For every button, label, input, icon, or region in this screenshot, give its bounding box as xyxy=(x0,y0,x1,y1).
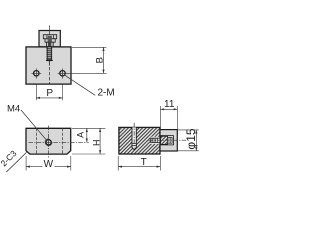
svg-text:φ15: φ15 xyxy=(184,128,198,149)
set screw threaded end xyxy=(151,138,160,142)
M4 tapped hole xyxy=(46,140,51,145)
dimension H line xyxy=(99,128,101,154)
dimension phi15 extension lines xyxy=(178,129,199,131)
front view hidden hole line left xyxy=(35,128,37,154)
clamp screw head xyxy=(43,35,56,39)
clamp screw threaded shank xyxy=(47,47,51,60)
dimension H bottom extension line xyxy=(72,153,105,155)
dimension A/H top extension line xyxy=(72,127,105,129)
front view horizontal centerline xyxy=(29,141,89,143)
set screw hex socket xyxy=(168,137,173,143)
svg-text:2-M: 2-M xyxy=(98,87,115,98)
clamp screw collar xyxy=(45,39,55,42)
front view hidden hole line right xyxy=(62,128,64,154)
clamp screw centerline xyxy=(48,26,50,35)
dimension T extension lines xyxy=(117,156,119,171)
dimension A line xyxy=(86,128,88,142)
dimension B extension lines xyxy=(72,46,106,48)
dimension W text xyxy=(43,159,55,168)
clamp screw shoulder xyxy=(47,42,54,46)
dimension T line xyxy=(118,166,160,168)
top view: clamp screw boss xyxy=(39,31,60,47)
dimension B line xyxy=(103,47,105,73)
side view block hatched xyxy=(119,127,160,154)
svg-text:A: A xyxy=(75,132,85,138)
boss bore xyxy=(160,135,174,137)
dimension phi15 line xyxy=(195,130,197,151)
front view vertical centerline xyxy=(48,126,50,159)
side view drilled hole centerline xyxy=(133,123,135,148)
dimension 11 line xyxy=(160,108,177,110)
svg-text:H: H xyxy=(91,140,101,147)
clamp screw tip xyxy=(46,60,53,61)
set screw head sectioned xyxy=(161,136,168,144)
svg-text:W: W xyxy=(44,159,54,170)
side view vertical drilled hole xyxy=(132,127,136,149)
clamp screw center column xyxy=(48,36,52,42)
svg-text:P: P xyxy=(46,88,53,99)
front view block xyxy=(26,128,71,154)
top view hole right xyxy=(60,71,65,76)
label 2-C3 leader xyxy=(6,152,26,172)
label M4 leader xyxy=(21,110,47,141)
dimension P line xyxy=(36,97,62,99)
svg-text:M4: M4 xyxy=(7,104,20,115)
side view cylindrical boss xyxy=(160,130,177,151)
dimension 11 extension lines xyxy=(159,106,161,129)
dimension W line xyxy=(26,166,71,168)
side view horizontal centerline xyxy=(149,139,187,141)
dimension W extension lines xyxy=(25,156,27,171)
top view: main block body xyxy=(26,47,71,84)
top view hole left xyxy=(34,71,39,76)
label 2-M leader xyxy=(64,75,95,95)
svg-text:B: B xyxy=(95,57,106,63)
side view screw counterbore xyxy=(151,137,160,144)
svg-text:T: T xyxy=(141,157,147,168)
dimension P extension lines xyxy=(35,85,37,101)
svg-text:11: 11 xyxy=(164,99,175,110)
